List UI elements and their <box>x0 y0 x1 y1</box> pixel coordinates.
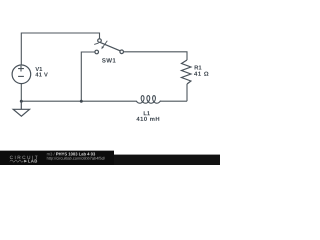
voltage source V1 body <box>12 65 31 84</box>
node junction dot at ground node <box>20 100 23 103</box>
watermark footer strip <box>0 155 220 165</box>
logo LAB <box>28 160 37 163</box>
footer url <box>47 157 105 161</box>
switch SW1 blade tail <box>94 43 98 44</box>
wire: switch left throw down to bottom rail <box>81 52 95 101</box>
wire: V1 top lead up and across to switch <box>21 33 99 65</box>
value 41 ohm <box>194 72 208 76</box>
logo arrow <box>24 160 27 163</box>
switch SW1 common terminal <box>120 50 124 54</box>
logo zigzag <box>10 160 24 162</box>
wire: resistor bottom lead <box>186 84 188 101</box>
wire: V1 bottom lead <box>20 84 22 101</box>
watermark logo box <box>0 151 114 165</box>
wire: switch common to right rail and down <box>124 52 188 60</box>
V1 minus sign <box>18 75 24 77</box>
label SW1 <box>102 58 116 62</box>
resistor R1 zigzag <box>182 60 191 84</box>
footer circuit title <box>56 152 95 155</box>
switch SW1 actuator arrow <box>103 41 108 48</box>
logo CIRCUIT <box>10 156 38 159</box>
value 410 mH <box>136 117 159 121</box>
label L1 <box>144 111 150 115</box>
label R1 <box>195 66 202 70</box>
switch SW1 left throw terminal <box>95 50 99 54</box>
wire: bottom rail left of inductor <box>21 100 136 102</box>
V1 plus sign <box>18 66 24 72</box>
switch SW1 top throw terminal <box>98 39 102 43</box>
ground symbol <box>13 101 29 116</box>
value 41 V <box>35 73 47 77</box>
switch SW1 blade <box>100 42 120 50</box>
node junction dot at switch throw / bottom rail <box>80 100 83 103</box>
inductor L1 coil <box>136 96 160 104</box>
wire: bottom rail right of inductor <box>160 100 187 102</box>
footer username <box>47 152 55 155</box>
label V1 <box>35 67 42 71</box>
